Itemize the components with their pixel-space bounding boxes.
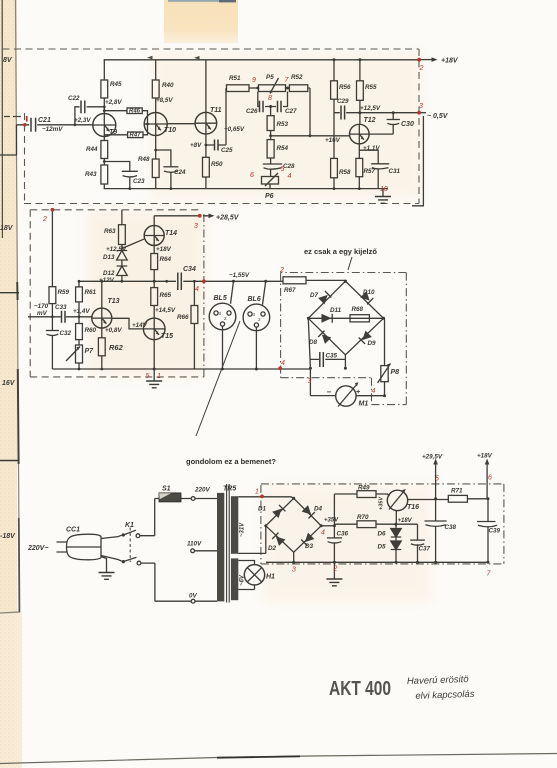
svg-text:D10: D10 [363, 289, 375, 296]
svg-text:T12: T12 [364, 117, 376, 124]
svg-text:+0,8V: +0,8V [105, 327, 122, 334]
svg-text:-18V: -18V [0, 533, 16, 540]
svg-text:C38: C38 [445, 524, 457, 531]
svg-text:+: + [356, 389, 360, 396]
svg-text:mV: mV [37, 310, 48, 317]
svg-text:16V: 16V [2, 380, 16, 387]
svg-text:R62: R62 [109, 343, 124, 352]
svg-text:R65: R65 [160, 292, 172, 299]
svg-text:S1: S1 [162, 486, 171, 493]
svg-text:4: 4 [288, 173, 292, 180]
svg-text:+12V: +12V [99, 277, 115, 284]
svg-text:+28,5V: +28,5V [216, 215, 240, 222]
svg-text:C35: C35 [326, 353, 338, 360]
svg-text:2: 2 [333, 566, 338, 573]
svg-text:110V: 110V [187, 541, 202, 548]
svg-text:8: 8 [268, 95, 272, 102]
svg-text:3: 3 [308, 378, 312, 385]
svg-text:3: 3 [194, 223, 198, 230]
svg-text:R50: R50 [211, 161, 223, 168]
svg-text:D1: D1 [258, 506, 267, 513]
svg-text:0V: 0V [189, 593, 198, 600]
svg-text:R40: R40 [162, 82, 174, 89]
svg-text:C26: C26 [246, 108, 258, 115]
svg-text:+35V: +35V [324, 518, 339, 524]
svg-text:R51: R51 [229, 75, 241, 82]
svg-text:R47: R47 [130, 133, 142, 139]
svg-text:D12: D12 [103, 270, 115, 277]
svg-text:5: 5 [281, 166, 285, 173]
svg-text:+14,5V: +14,5V [155, 307, 176, 314]
svg-text:18V: 18V [0, 225, 14, 232]
svg-text:R44: R44 [86, 146, 98, 153]
svg-text:C25: C25 [221, 147, 233, 154]
svg-text:+12,5V: +12,5V [106, 246, 127, 253]
svg-text:+16V: +16V [325, 137, 341, 144]
svg-text:R64: R64 [160, 256, 172, 263]
svg-text:+8V: +8V [190, 142, 202, 149]
svg-text:6: 6 [488, 475, 492, 482]
svg-text:D13: D13 [103, 254, 115, 261]
svg-text:R66: R66 [177, 314, 189, 321]
svg-text:C21: C21 [38, 117, 51, 124]
svg-text:+1,1V: +1,1V [363, 145, 380, 152]
svg-text:P8: P8 [391, 369, 400, 376]
svg-text:R46: R46 [129, 109, 141, 115]
svg-text:~1,55V: ~1,55V [229, 272, 250, 279]
svg-text:~6V: ~6V [240, 574, 246, 586]
svg-text:9: 9 [252, 77, 256, 84]
svg-text:AKT 400: AKT 400 [329, 678, 391, 700]
svg-text:+12,5V: +12,5V [360, 105, 381, 112]
svg-text:+2,8V: +2,8V [105, 99, 122, 106]
svg-text:1: 1 [157, 373, 161, 380]
svg-text:R61: R61 [85, 289, 97, 296]
svg-text:T15: T15 [161, 333, 173, 340]
svg-text:4: 4 [281, 360, 285, 367]
svg-text:+1,4V: +1,4V [73, 308, 90, 315]
svg-text:H1: H1 [266, 574, 275, 581]
svg-text:1: 1 [255, 489, 259, 496]
svg-text:C31: C31 [389, 168, 401, 175]
svg-text:+18V: +18V [477, 453, 493, 460]
svg-text:10: 10 [380, 186, 388, 193]
svg-text:D6: D6 [378, 531, 387, 538]
svg-text:5: 5 [146, 373, 150, 380]
svg-text:K1: K1 [125, 522, 134, 529]
svg-text:+2,3V: +2,3V [74, 117, 91, 124]
svg-text:R43: R43 [85, 171, 97, 178]
svg-text:Haverú erösitö: Haverú erösitö [407, 674, 470, 687]
svg-text:2: 2 [42, 216, 47, 223]
svg-text:BL6: BL6 [248, 296, 261, 303]
svg-text:P7: P7 [85, 348, 95, 355]
svg-text:R45: R45 [110, 81, 122, 88]
svg-text:C24: C24 [174, 169, 186, 176]
svg-text:3: 3 [292, 567, 296, 574]
svg-text:R56: R56 [339, 84, 351, 91]
svg-text:C39: C39 [489, 528, 501, 535]
svg-text:M1: M1 [359, 401, 369, 408]
svg-text:2: 2 [419, 65, 424, 72]
svg-text:R49: R49 [358, 485, 370, 492]
svg-text:+18V: +18V [156, 246, 172, 253]
svg-text:~ 0,5V: ~ 0,5V [427, 113, 449, 120]
svg-text:R55: R55 [365, 84, 377, 91]
svg-text:4: 4 [321, 530, 325, 537]
svg-text:C34: C34 [183, 266, 196, 273]
svg-text:~170: ~170 [34, 303, 49, 310]
svg-text:R67: R67 [284, 287, 296, 294]
svg-text:T14: T14 [165, 230, 177, 237]
svg-text:D9: D9 [368, 340, 377, 347]
svg-text:220V: 220V [194, 487, 211, 494]
svg-text:D11: D11 [330, 307, 342, 314]
svg-text:R59: R59 [58, 289, 70, 296]
svg-text:P5: P5 [266, 74, 274, 81]
svg-text:4: 4 [195, 286, 199, 293]
svg-text:+35V: +35V [379, 496, 385, 510]
svg-text:T9: T9 [109, 129, 117, 136]
svg-text:T11: T11 [210, 107, 222, 114]
svg-text:4: 4 [372, 388, 376, 395]
svg-text:C27: C27 [285, 108, 297, 115]
svg-text:R54: R54 [277, 145, 289, 152]
svg-text:D2: D2 [268, 545, 277, 552]
svg-text:C22: C22 [68, 95, 80, 102]
svg-text:~31V: ~31V [240, 522, 246, 537]
svg-text:D5: D5 [378, 544, 387, 551]
svg-text:~12mV: ~12mV [42, 126, 63, 133]
svg-text:C33: C33 [55, 304, 67, 311]
svg-text:+29,5V: +29,5V [422, 454, 443, 461]
svg-text:R53: R53 [277, 121, 289, 128]
svg-text:D8: D8 [309, 339, 318, 346]
svg-text:C28: C28 [283, 163, 295, 170]
svg-text:+8,5V: +8,5V [156, 97, 173, 104]
svg-text:R58: R58 [339, 169, 351, 176]
svg-text:R57: R57 [364, 168, 376, 175]
svg-text:3: 3 [419, 103, 423, 110]
svg-text:C37: C37 [419, 546, 431, 553]
svg-text:BL5: BL5 [214, 295, 227, 302]
svg-text:R70: R70 [357, 514, 369, 521]
svg-text:P6: P6 [265, 193, 274, 200]
svg-text:C30: C30 [401, 121, 414, 128]
svg-text:R71: R71 [451, 488, 463, 495]
svg-text:TR5: TR5 [223, 486, 236, 493]
svg-text:D4: D4 [314, 506, 323, 513]
svg-text:R48: R48 [138, 156, 150, 163]
svg-text:R60: R60 [85, 327, 97, 334]
svg-text:6: 6 [250, 172, 254, 179]
svg-text:R68: R68 [352, 306, 364, 313]
svg-text:+14V: +14V [132, 322, 148, 329]
svg-text:~0,65V: ~0,65V [224, 126, 245, 133]
svg-text:+18V: +18V [398, 518, 413, 524]
svg-text:5: 5 [435, 476, 439, 483]
svg-text:T10: T10 [164, 127, 176, 134]
svg-text:R52: R52 [291, 74, 303, 81]
svg-text:C23: C23 [133, 178, 145, 185]
svg-text:C29: C29 [337, 98, 349, 105]
svg-text:T13: T13 [108, 298, 120, 305]
svg-text:220V~: 220V~ [27, 545, 48, 552]
svg-text:D3: D3 [305, 543, 314, 550]
svg-text:C36: C36 [337, 531, 349, 538]
svg-text:D7: D7 [310, 292, 319, 299]
svg-text:T16: T16 [407, 504, 419, 511]
svg-text:gondolom ez a bemenet?: gondolom ez a bemenet? [186, 457, 276, 466]
svg-text:CC1: CC1 [66, 527, 80, 534]
svg-text:ez csak a egy kijelző: ez csak a egy kijelző [304, 247, 377, 256]
svg-text:−: − [327, 388, 332, 397]
svg-text:C32: C32 [60, 330, 72, 337]
svg-text:8V: 8V [3, 57, 13, 64]
svg-text:+18V: +18V [441, 58, 459, 65]
svg-text:elvi kapcsolás: elvi kapcsolás [415, 689, 475, 702]
svg-text:R63: R63 [104, 228, 116, 235]
